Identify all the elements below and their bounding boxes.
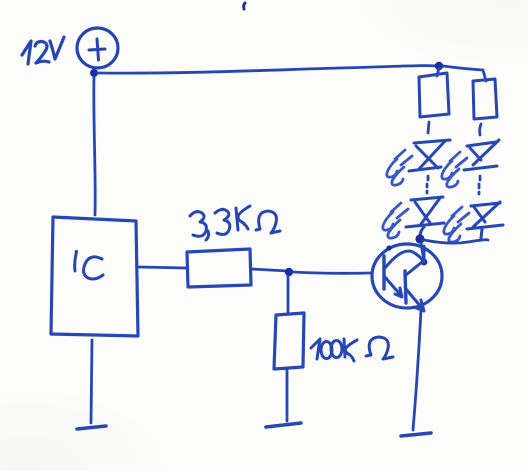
- label 100KOhm: [311, 337, 393, 361]
- D3 light arrows: [442, 152, 467, 187]
- ground R2: [266, 423, 301, 427]
- wire supply to IC top: [94, 77, 95, 215]
- D2 light arrows: [383, 203, 408, 238]
- transistor Q1 Darlington circle: [372, 244, 442, 308]
- wire junction to resistor R3: [437, 68, 439, 76]
- Q1 first collector stroke: [385, 251, 424, 268]
- Q1 pen dot: [386, 245, 391, 250]
- label IC: [75, 251, 103, 279]
- node at supply junction: [90, 69, 98, 77]
- resistor R2 100k: [274, 313, 304, 369]
- label 12V: [22, 37, 64, 64]
- ground IC: [77, 426, 106, 429]
- LED D3 (right top): [464, 140, 499, 170]
- ground emitter: [401, 433, 431, 436]
- LED D1 (left top): [409, 140, 450, 171]
- Q1 second base bar: [405, 271, 406, 303]
- resistor R3 (left LED string): [419, 73, 449, 117]
- node top-right junction: [435, 62, 443, 70]
- resistor R1 3.3k: [187, 249, 251, 287]
- LED D4 (right bottom): [467, 202, 503, 238]
- node base junction: [285, 268, 293, 276]
- wire R1 to base node: [252, 269, 288, 271]
- Q1 first emitter with arrow: [385, 277, 402, 297]
- wire junction to right branch: [443, 66, 486, 81]
- wire dots below D1: [427, 176, 428, 193]
- wire R2 to ground: [286, 369, 289, 421]
- stray pen mark top center: [244, 3, 245, 9]
- wire emitter to ground: [413, 310, 421, 430]
- wire dots below D3: [479, 176, 480, 194]
- D4 light arrows: [444, 207, 469, 242]
- wire top rail: [98, 66, 438, 74]
- wire junction into transistor collector: [421, 243, 424, 261]
- wire dash below R4: [480, 124, 481, 135]
- wire dash below R3: [428, 122, 429, 133]
- Q1 collector lead inside: [423, 246, 426, 261]
- Q1 second emitter with arrow: [406, 289, 424, 311]
- Q1 inner collector node: [421, 259, 428, 266]
- wire node down to R2: [287, 276, 290, 313]
- wire LED strings bottom: [424, 240, 488, 243]
- Q1 second collector stroke: [406, 262, 422, 275]
- D1 light arrows: [387, 150, 412, 185]
- wire IC bottom to ground: [91, 340, 92, 423]
- label 3,3KOhm: [190, 206, 280, 240]
- IC box U1: [51, 217, 138, 336]
- voltage source V1 circle +: [77, 28, 118, 68]
- Q1 first base bar: [382, 256, 385, 289]
- resistor R4 (right LED string): [473, 79, 497, 119]
- wire IC output to R1: [139, 267, 186, 268]
- LED D2 (left bottom): [406, 197, 444, 237]
- node collector junction: [415, 234, 424, 243]
- wire node to Q1 base: [293, 272, 371, 273]
